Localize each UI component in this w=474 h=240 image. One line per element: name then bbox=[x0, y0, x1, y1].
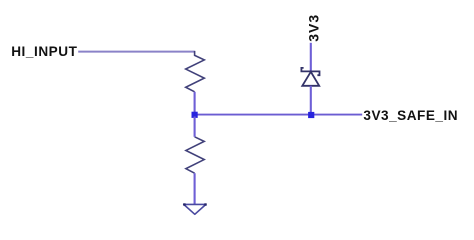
wire: zener anode down to node B bbox=[310, 86, 312, 113]
resistor R1 (upper divider resistor, zigzag) bbox=[186, 51, 205, 92]
svg-text:HI_INPUT: HI_INPUT bbox=[11, 44, 77, 59]
ground symbol left corner dot bbox=[183, 203, 185, 205]
node A junction (divider tap) bbox=[192, 112, 198, 118]
zener diode D1 anode triangle bbox=[302, 72, 319, 86]
wire: HI_INPUT horizontal to resistor R1 bbox=[78, 51, 194, 53]
wire: node A down to R2 top bbox=[194, 117, 196, 137]
wire: 3V3 label down to zener cathode bbox=[310, 43, 312, 72]
wire: middle horizontal node B to 3V3_SAFE_IN bbox=[311, 114, 362, 116]
svg-text:3V3_SAFE_IN: 3V3_SAFE_IN bbox=[363, 108, 458, 123]
wire: middle horizontal node A to node B bbox=[195, 114, 312, 116]
ground symbol (open triangle) bbox=[184, 204, 206, 214]
resistor R2 (lower divider resistor, zigzag) bbox=[186, 137, 204, 173]
zener diode D1 cathode bar with bent ends bbox=[301, 68, 319, 75]
ground symbol right corner dot bbox=[204, 203, 206, 205]
svg-text:3V3: 3V3 bbox=[305, 14, 321, 42]
wire: R2 bottom to ground bbox=[194, 173, 196, 204]
wire: R1 bottom to node A bbox=[194, 92, 196, 113]
node B junction (zener tap) bbox=[308, 112, 314, 118]
